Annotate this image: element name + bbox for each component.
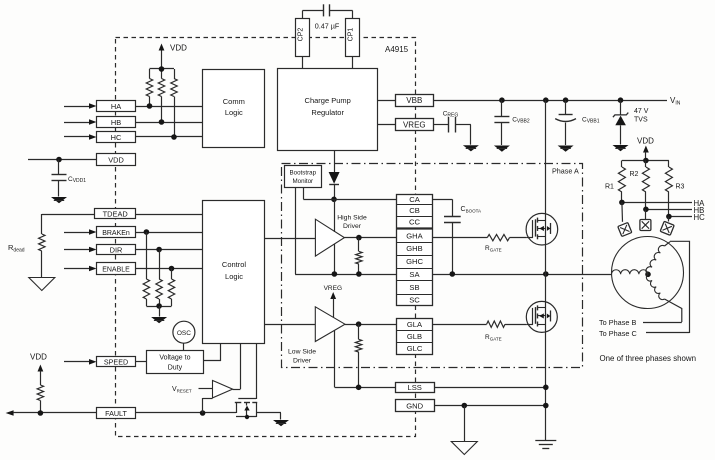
svg-text:VDD: VDD: [108, 155, 124, 164]
svg-text:To Phase B: To Phase B: [599, 318, 636, 327]
svg-text:CVBB2: CVBB2: [512, 117, 530, 125]
svg-text:R2: R2: [630, 171, 639, 178]
svg-text:R1: R1: [605, 184, 614, 191]
svg-text:Charge Pump: Charge Pump: [305, 96, 351, 105]
svg-text:SA: SA: [409, 270, 420, 279]
svg-text:Low Side: Low Side: [288, 349, 316, 356]
svg-text:TDEAD: TDEAD: [103, 210, 128, 219]
svg-text:CP1: CP1: [348, 28, 355, 42]
svg-text:GHA: GHA: [406, 232, 423, 241]
svg-text:0.47 µF: 0.47 µF: [315, 21, 340, 30]
svg-text:CC: CC: [409, 218, 420, 227]
svg-text:HC: HC: [111, 133, 122, 142]
svg-text:GND: GND: [406, 401, 423, 410]
svg-text:GLB: GLB: [407, 332, 422, 341]
svg-text:OSC: OSC: [177, 330, 191, 337]
svg-text:Voltage to: Voltage to: [159, 355, 190, 362]
svg-text:GHB: GHB: [406, 244, 422, 253]
svg-text:ENABLE: ENABLE: [102, 267, 130, 274]
svg-text:R3: R3: [676, 184, 685, 191]
svg-text:HA: HA: [111, 102, 121, 111]
svg-text:HC: HC: [694, 213, 706, 222]
svg-text:High Side: High Side: [337, 215, 367, 222]
svg-text:VBB: VBB: [406, 96, 422, 105]
svg-text:Monitor: Monitor: [292, 178, 313, 185]
svg-text:GLA: GLA: [407, 320, 423, 329]
svg-text:VREG: VREG: [324, 285, 342, 292]
svg-text:Comm: Comm: [223, 97, 245, 106]
svg-text:CA: CA: [409, 195, 420, 204]
svg-text:VDD: VDD: [170, 44, 187, 53]
svg-text:SC: SC: [409, 295, 420, 304]
svg-text:LSS: LSS: [408, 383, 422, 392]
svg-text:BRAKEn: BRAKEn: [102, 230, 130, 237]
svg-text:Logic: Logic: [225, 272, 243, 281]
svg-text:SB: SB: [409, 283, 419, 292]
svg-text:GLC: GLC: [407, 344, 423, 353]
svg-text:CVDD1: CVDD1: [68, 176, 86, 184]
svg-text:CB: CB: [409, 206, 420, 215]
svg-text:47 V: 47 V: [634, 108, 649, 115]
svg-text:CP2: CP2: [298, 28, 305, 42]
svg-text:SPEED: SPEED: [104, 358, 128, 367]
svg-text:Driver: Driver: [293, 358, 312, 365]
svg-text:A4915: A4915: [385, 45, 409, 54]
svg-text:GHC: GHC: [406, 257, 423, 266]
svg-text:Bootstrap: Bootstrap: [290, 169, 317, 176]
svg-text:One of three phases shown: One of three phases shown: [600, 354, 697, 363]
svg-text:Driver: Driver: [343, 223, 362, 230]
svg-text:Logic: Logic: [225, 108, 243, 117]
svg-text:To Phase C: To Phase C: [599, 329, 637, 338]
svg-text:TVS: TVS: [634, 117, 648, 124]
svg-text:VDD: VDD: [637, 137, 654, 146]
svg-text:Control: Control: [222, 260, 247, 269]
svg-text:VDD: VDD: [30, 353, 47, 362]
svg-text:Duty: Duty: [168, 365, 183, 372]
svg-text:Phase A: Phase A: [552, 167, 579, 176]
svg-text:FAULT: FAULT: [105, 409, 127, 418]
svg-text:CREG: CREG: [443, 110, 459, 118]
svg-text:HB: HB: [111, 118, 121, 127]
svg-text:DIR: DIR: [110, 245, 123, 254]
svg-text:CVBB1: CVBB1: [582, 117, 600, 125]
svg-text:Regulator: Regulator: [311, 108, 344, 117]
svg-text:VREG: VREG: [403, 120, 426, 129]
